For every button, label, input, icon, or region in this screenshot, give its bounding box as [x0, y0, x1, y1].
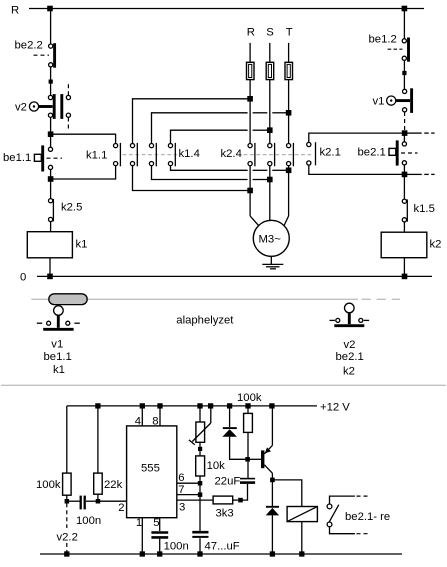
- wire be1.2 to v1: [403, 60, 405, 89]
- junction bottom rail 47uF: [197, 551, 202, 556]
- junction 0 rail left: [47, 274, 53, 280]
- svg-text:10k: 10k: [207, 460, 226, 472]
- dashes be2.1-re top: [357, 495, 368, 497]
- junction rail wiper: [208, 403, 213, 408]
- wire phase S upper: [269, 43, 271, 62]
- button v1 terminal right: [66, 321, 70, 325]
- wire be2.1-re top: [330, 496, 355, 504]
- junction left A: [48, 131, 54, 137]
- svg-text:100k: 100k: [237, 392, 262, 404]
- wire pin8: [159, 406, 161, 426]
- wire 22k bottom: [97, 494, 99, 501]
- pushbutton contact be2.1: [389, 140, 418, 165]
- button v1 pressed pill: [49, 294, 87, 305]
- contact k1.4 pole 3: [168, 143, 175, 166]
- svg-text:22k: 22k: [104, 479, 123, 491]
- svg-text:k2: k2: [430, 238, 442, 250]
- wire phase T to contact: [288, 80, 290, 144]
- coil k2: [381, 232, 427, 258]
- wire k1.4 pole2 bottom: [152, 166, 248, 180]
- wire trimmer top: [199, 406, 201, 422]
- wire k2.5 to coil k1: [50, 222, 52, 232]
- switch v1: [387, 88, 412, 113]
- diode D1: [222, 428, 237, 437]
- button v1 dash right: [74, 322, 79, 324]
- wire k1.4 pole2 bottom end: [253, 179, 268, 181]
- svg-text:k1.4: k1.4: [179, 148, 200, 160]
- wire collector to relay: [272, 480, 301, 507]
- contact be2.1-re terminal bottom: [327, 522, 332, 527]
- svg-text:22uF: 22uF: [215, 475, 241, 487]
- diode D2: [266, 507, 279, 516]
- mechanical link dashes k1 row: [123, 154, 178, 156]
- junction right B: [402, 172, 408, 178]
- svg-text:3k3: 3k3: [216, 508, 234, 520]
- wire phase T upper: [288, 43, 290, 62]
- svg-text:v2.2: v2.2: [57, 531, 78, 543]
- wire k1.1 loop bottom: [53, 166, 116, 179]
- IC 555: [127, 426, 177, 518]
- mech link v2.2 dashed lower: [66, 543, 68, 553]
- svg-text:be2.1: be2.1: [336, 351, 364, 363]
- wire motor lead R diagonal: [250, 216, 259, 226]
- wire be2.1-re bottom: [330, 527, 355, 534]
- wire coil k2 to 0 rail: [403, 258, 405, 277]
- contact k1.4 pole 1: [130, 143, 137, 166]
- svg-text:k1: k1: [76, 239, 88, 251]
- junction rail pin4: [140, 403, 145, 408]
- motor M3~: [253, 220, 289, 256]
- svg-text:8: 8: [152, 416, 158, 428]
- svg-text:0: 0: [20, 272, 26, 284]
- svg-text:v1: v1: [51, 339, 63, 351]
- junction left B: [48, 176, 54, 182]
- svg-text:alaphelyzet: alaphelyzet: [176, 314, 234, 326]
- separator line 1 gray: [31, 298, 358, 300]
- contact k2.4 pole R: [248, 143, 255, 166]
- button v2 terminal right: [359, 318, 363, 322]
- coil k1: [27, 232, 72, 258]
- mech link v2.2 dashed upper: [66, 503, 68, 528]
- button v2 dash right: [364, 319, 369, 321]
- wire junction to be1.1: [50, 134, 52, 147]
- wire coil k1 to 0 rail: [49, 258, 51, 277]
- wire phase T lower: [288, 166, 290, 216]
- pushbutton contact be2.2: [34, 43, 55, 67]
- capacitor 47uF: [192, 532, 208, 537]
- svg-text:R: R: [247, 26, 255, 38]
- trimmer resistor: [196, 422, 205, 442]
- wire 100k left top: [66, 406, 68, 473]
- wire 10k bottom vertical: [199, 476, 201, 531]
- svg-text:k2.5: k2.5: [61, 202, 82, 214]
- svg-text:6: 6: [178, 472, 184, 484]
- svg-text:be1.1: be1.1: [44, 351, 72, 363]
- junction phase T top: [286, 110, 292, 116]
- wire 0 rail: [37, 275, 432, 277]
- wire phase R upper: [249, 43, 251, 62]
- wire diode1 to base node: [230, 437, 248, 460]
- resistor 100k left: [63, 473, 72, 495]
- junction pin7 node: [198, 492, 203, 497]
- wire k1.4 pole1 bottom: [133, 166, 248, 191]
- svg-text:5: 5: [153, 517, 159, 529]
- svg-text:k2: k2: [343, 366, 355, 378]
- ground: [262, 264, 283, 268]
- svg-text:1: 1: [136, 517, 142, 529]
- dashes right A: [407, 132, 435, 134]
- wire k2.1 loop top: [309, 133, 402, 142]
- junction bottom rail relay: [299, 551, 304, 556]
- svg-text:100n: 100n: [164, 541, 189, 553]
- junction rail diode: [227, 403, 232, 408]
- wire 22k top: [97, 406, 99, 473]
- capacitor 100n bottom: [151, 533, 168, 538]
- wire relay to rail: [301, 522, 303, 554]
- svg-text:100k: 100k: [36, 479, 61, 491]
- wire k1.4 pole2 top: [152, 113, 248, 144]
- wire pin7: [177, 494, 200, 496]
- svg-text:k1.1: k1.1: [86, 149, 107, 161]
- junction 0 rail right: [402, 274, 408, 280]
- wire k1.4 pole3 bottom end: [272, 169, 286, 171]
- wire R rail: [29, 8, 424, 10]
- junction collector node: [270, 478, 275, 483]
- fuse T: [285, 62, 293, 79]
- junction pin6 node: [198, 481, 203, 486]
- junction rail 22k: [95, 403, 100, 408]
- wire k1.4 pole1 top: [133, 99, 248, 144]
- wire diode1 top: [229, 406, 231, 427]
- pushbutton contact be1.2: [388, 38, 409, 62]
- wire bottom rail: [40, 553, 402, 555]
- wire diode2 to rail: [271, 515, 273, 554]
- contact be2.1-re terminal top: [327, 504, 332, 509]
- wire k1.4 pole3 top: [171, 130, 248, 143]
- junction R rail right: [402, 6, 408, 12]
- wire k1.4 pole3 top end: [253, 129, 268, 131]
- svg-text:k2.1: k2.1: [320, 147, 341, 159]
- wire pin1: [141, 518, 143, 554]
- fuse S: [266, 62, 274, 79]
- contact k2.4 pole S: [268, 143, 275, 166]
- capacitor 100n left: [81, 496, 85, 510]
- wire k1.1 loop top: [53, 134, 116, 143]
- wire +12V rail: [67, 405, 317, 407]
- contact k1.4 pole 2: [149, 143, 156, 166]
- wire base: [248, 458, 262, 460]
- button v2 terminal left: [336, 318, 340, 322]
- junction bottom rail pin1: [140, 551, 145, 556]
- mechanical link dashes k2 row: [244, 154, 315, 156]
- button v1 dash left: [37, 322, 42, 324]
- wire emitter to rail: [271, 406, 273, 446]
- resistor 22k: [94, 473, 103, 494]
- junction phase S bottom: [267, 177, 273, 183]
- wire 22uF bottom: [241, 484, 248, 500]
- switch v2: [29, 84, 70, 128]
- wire trimmer to 10k: [199, 442, 201, 456]
- button v2 base: [334, 324, 364, 327]
- svg-text:v1: v1: [373, 96, 385, 108]
- wire k1.4 pole2 top end: [272, 112, 286, 114]
- wire 47uF to rail: [199, 538, 201, 554]
- svg-text:S: S: [266, 26, 274, 38]
- wire k1.4 pole2 top crossing segment: [253, 112, 268, 114]
- wire k1.5 to coil k2: [403, 222, 405, 232]
- resistor 100k right: [244, 413, 253, 432]
- wire pin3: [177, 499, 213, 501]
- wire pin2: [98, 500, 127, 502]
- svg-text:T: T: [286, 26, 293, 38]
- fuse R: [247, 62, 255, 79]
- wire pin4: [141, 406, 143, 426]
- svg-text:v2: v2: [15, 101, 27, 113]
- svg-text:k2.4: k2.4: [221, 148, 242, 160]
- wire be1.1 to junction B: [50, 170, 52, 180]
- wire 100k right top: [247, 406, 249, 414]
- wire 3k3 to junction: [233, 499, 239, 501]
- junction bottom rail diode2: [270, 551, 275, 556]
- transistor Q1: [261, 445, 272, 473]
- junction base node: [245, 457, 250, 462]
- button v1 knob: [54, 306, 64, 316]
- svg-text:3: 3: [179, 502, 185, 514]
- wire k1.4 pole3 bottom crossing segment: [253, 169, 268, 171]
- trimmer wiper wire: [210, 406, 212, 423]
- wire right branch top: [403, 9, 405, 39]
- junction phase S top: [267, 127, 273, 133]
- wire phase R lower: [249, 166, 251, 216]
- wire motor lead T diagonal: [284, 216, 289, 226]
- wire be2.1 to junction B: [403, 165, 405, 175]
- wire 100k right bottom: [247, 432, 249, 478]
- wire node to cap 100n: [67, 500, 80, 502]
- junction 3k3 node: [238, 498, 243, 503]
- svg-text:be1.2: be1.2: [369, 34, 397, 46]
- wire k1.4 pole3 bottom: [171, 166, 248, 171]
- junction rail trimmer: [197, 403, 202, 408]
- wire phase S to contact: [269, 80, 271, 144]
- wire pin6: [177, 482, 200, 484]
- dashes right B: [407, 173, 435, 175]
- junction phase R top: [247, 96, 253, 102]
- junction phase R bottom: [247, 188, 253, 194]
- junction rail pin8: [157, 403, 162, 408]
- button v1 stem: [57, 315, 60, 328]
- junction rail 100k right: [245, 403, 250, 408]
- wire junction to be2.1: [403, 133, 405, 142]
- junction node 22k: [96, 499, 101, 504]
- separator line 2 gray: [1, 384, 446, 386]
- terminal mark left: [49, 80, 53, 84]
- junction phase T bottom: [286, 168, 292, 174]
- contact k2.4 pole T: [287, 143, 294, 166]
- svg-text:100n: 100n: [76, 515, 101, 527]
- wire motor to ground: [270, 256, 272, 264]
- wire junction B to k1.5: [403, 174, 405, 199]
- button v1 terminal left: [47, 321, 51, 325]
- contact be2.1-re arm: [329, 505, 339, 523]
- svg-text:k1.5: k1.5: [414, 203, 435, 215]
- svg-text:be2.2: be2.2: [15, 40, 43, 52]
- wire pin5: [159, 518, 161, 531]
- wire collector down: [271, 473, 273, 506]
- svg-text:be1.1: be1.1: [3, 152, 31, 164]
- wire v2 to junction: [50, 117, 52, 134]
- wire phase R to contact: [249, 80, 251, 144]
- junction rail emitter: [269, 403, 274, 408]
- wire left branch top: [50, 9, 52, 45]
- dashes be2.1-re bottom: [357, 533, 368, 535]
- wire k2.1 loop bottom: [309, 165, 402, 174]
- junction right A: [402, 130, 408, 136]
- junction bottom rail v2.2: [64, 551, 69, 556]
- wire 100k left bottom: [66, 495, 68, 501]
- svg-text:2: 2: [118, 502, 124, 514]
- capacitor 22uF: [240, 479, 255, 483]
- svg-text:v2: v2: [344, 339, 356, 351]
- terminal mark right: [402, 71, 406, 75]
- wire 100n bottom to rail: [159, 539, 161, 554]
- wire be2.2 to v2: [50, 67, 52, 96]
- button v2 dash left: [330, 319, 335, 321]
- svg-text:be2.1: be2.1: [358, 147, 386, 159]
- contact k1.5: [402, 199, 407, 222]
- trimmer wiper arrow: [189, 423, 211, 445]
- relay coil: [287, 507, 317, 522]
- contact k1.1: [114, 143, 121, 166]
- resistor 3k3: [213, 496, 233, 504]
- junction bottom rail 100n: [157, 551, 162, 556]
- svg-text:47...uF: 47...uF: [205, 541, 240, 553]
- button v1 base: [43, 328, 73, 331]
- separator line 1 gray dashes: [362, 298, 401, 300]
- junction node 100k: [65, 499, 70, 504]
- pushbutton contact be1.1: [34, 145, 62, 171]
- contact k2.1: [307, 142, 316, 165]
- resistor 10k: [196, 456, 205, 476]
- svg-text:M3~: M3~: [259, 234, 282, 246]
- svg-text:+12 V: +12 V: [320, 401, 350, 413]
- svg-text:R: R: [11, 5, 19, 17]
- svg-text:k1: k1: [53, 364, 65, 376]
- wire be1.1 to k2.5: [50, 179, 52, 199]
- svg-text:555: 555: [141, 463, 160, 475]
- contact k2.5: [49, 199, 54, 222]
- junction R rail left: [47, 6, 53, 12]
- svg-text:be2.1- re: be2.1- re: [345, 511, 390, 523]
- wire v1 to junction dashed: [404, 112, 406, 131]
- wire phase S lower: [269, 166, 271, 221]
- wire cap to 22k node: [86, 500, 98, 502]
- svg-text:4: 4: [135, 416, 141, 428]
- junction trimmer 10k: [198, 447, 202, 451]
- button v2 stem: [348, 313, 351, 324]
- button v2 knob: [345, 303, 355, 313]
